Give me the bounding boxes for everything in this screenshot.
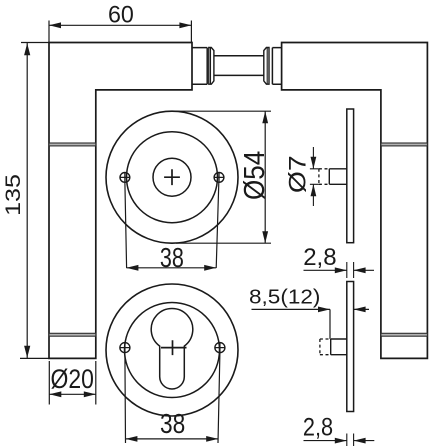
- svg-text:135: 135: [1, 174, 25, 216]
- svg-text:38: 38: [160, 242, 184, 273]
- svg-text:Ø54: Ø54: [238, 151, 270, 200]
- svg-text:2,8: 2,8: [303, 244, 336, 271]
- svg-text:2,8: 2,8: [303, 413, 333, 441]
- svg-text:38: 38: [160, 409, 185, 440]
- svg-text:Ø20: Ø20: [50, 364, 93, 394]
- svg-text:Ø7: Ø7: [284, 155, 311, 193]
- svg-text:8,5(12): 8,5(12): [249, 286, 320, 309]
- svg-text:60: 60: [108, 2, 134, 28]
